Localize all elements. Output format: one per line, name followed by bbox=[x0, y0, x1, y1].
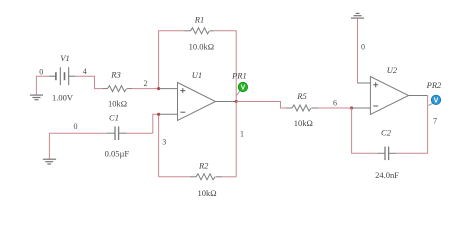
ground symbol below V1 bbox=[30, 95, 43, 100]
svg-text:PR1: PR1 bbox=[231, 71, 247, 81]
svg-text:C2: C2 bbox=[381, 128, 392, 138]
wire net 3 bottom segment to R2 bbox=[159, 176, 190, 178]
wire net 0 from C1 to ground bbox=[49, 133, 107, 159]
voltage source V1 battery symbol bbox=[49, 67, 75, 85]
ground symbol above U2 bbox=[351, 13, 364, 18]
svg-text:24.0nF: 24.0nF bbox=[375, 170, 399, 180]
junction node 1 at U1 output bbox=[235, 100, 238, 103]
wire net 1 from R2 to output riser bbox=[222, 176, 236, 178]
svg-text:0: 0 bbox=[74, 122, 78, 131]
capacitor C1 bbox=[107, 126, 127, 140]
svg-text:V1: V1 bbox=[60, 53, 69, 63]
probe PR1 bbox=[237, 82, 248, 95]
svg-text:2: 2 bbox=[144, 79, 148, 88]
svg-text:V: V bbox=[434, 98, 439, 105]
svg-text:R3: R3 bbox=[110, 70, 120, 80]
wire net 1 from U1 output down to R2 bbox=[235, 102, 237, 177]
svg-text:0.05µF: 0.05µF bbox=[105, 149, 130, 159]
wire net 0 from ground to V1 negative bbox=[36, 76, 49, 95]
ground symbol below C1 bbox=[43, 159, 56, 164]
svg-text:V: V bbox=[241, 85, 246, 92]
svg-text:0: 0 bbox=[39, 67, 43, 76]
wire net 2 riser to R1 bbox=[159, 31, 185, 89]
wire net 3 from C1 to U1 minus input bbox=[153, 114, 159, 133]
wire net 2 from R3 to U1 plus input bbox=[132, 88, 159, 90]
svg-text:10kΩ: 10kΩ bbox=[108, 99, 127, 109]
junction node 6 bbox=[350, 106, 353, 109]
svg-text:4: 4 bbox=[83, 67, 87, 76]
wire net 6 riser to C2 bbox=[352, 108, 378, 153]
wire net 3 from C1 right lead bbox=[127, 132, 153, 134]
capacitor C2 bbox=[378, 147, 396, 161]
svg-text:R1: R1 bbox=[194, 15, 204, 25]
wire net 6 from R5 to U2 minus input bbox=[318, 107, 352, 109]
junction node 2 bbox=[157, 87, 160, 90]
wire net 0 from top ground to U2 plus input bbox=[358, 18, 371, 83]
op-amp U1 bbox=[159, 83, 237, 121]
svg-text:1.00V: 1.00V bbox=[52, 93, 74, 103]
svg-text:10.0kΩ: 10.0kΩ bbox=[189, 41, 214, 51]
svg-text:0: 0 bbox=[361, 43, 365, 52]
resistor R1 bbox=[185, 28, 215, 34]
resistor R5 bbox=[286, 105, 318, 111]
junction node 3 bbox=[157, 113, 160, 116]
wire net 7 from C2 up to U2 output bbox=[396, 96, 428, 154]
svg-text:1: 1 bbox=[240, 130, 244, 139]
svg-text:U1: U1 bbox=[192, 70, 202, 80]
svg-text:6: 6 bbox=[333, 98, 337, 107]
svg-text:R2: R2 bbox=[198, 161, 209, 171]
svg-text:C1: C1 bbox=[109, 113, 119, 123]
svg-text:7: 7 bbox=[433, 117, 437, 126]
wire net 3 riser to R2 bbox=[158, 114, 160, 177]
resistor R3 bbox=[103, 86, 133, 92]
svg-text:R5: R5 bbox=[296, 91, 306, 101]
wire net 1 from U1 output to R5 bbox=[236, 102, 286, 109]
svg-text:PR2: PR2 bbox=[426, 80, 442, 90]
probe PR2 bbox=[429, 95, 441, 105]
svg-text:U2: U2 bbox=[387, 65, 398, 75]
svg-text:3: 3 bbox=[162, 138, 166, 147]
svg-text:10kΩ: 10kΩ bbox=[197, 188, 216, 198]
resistor R2 bbox=[190, 174, 222, 180]
svg-text:10kΩ: 10kΩ bbox=[294, 118, 313, 128]
op-amp U2 bbox=[352, 77, 428, 115]
wire net 4 from V1 to R3 bbox=[75, 76, 103, 88]
wire net 1 from R1 down to U1 output bbox=[214, 31, 236, 102]
